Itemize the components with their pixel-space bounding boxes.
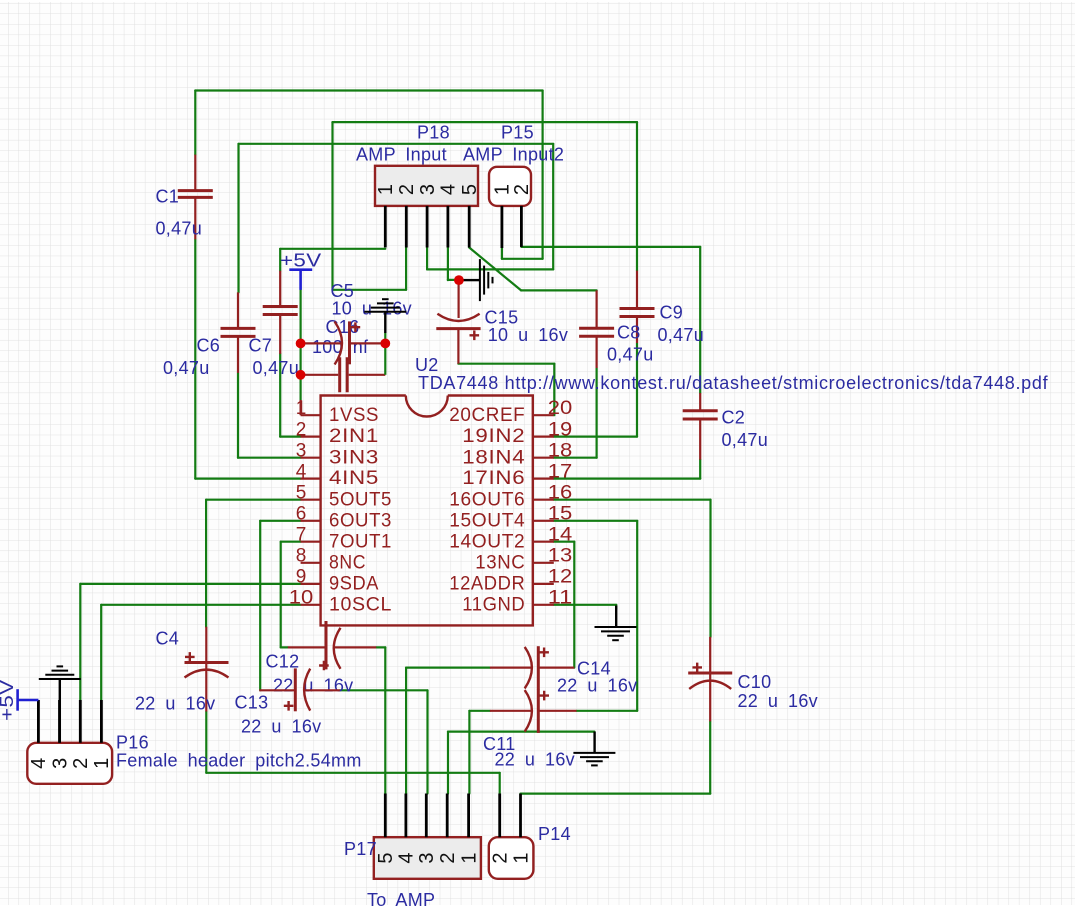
wire C7 top vertical green bbox=[279, 249, 281, 271]
wire C12 left lead green part bbox=[281, 646, 288, 648]
U2 pin names right bbox=[449, 405, 525, 616]
wire C14 left lead green part bbox=[406, 666, 490, 668]
svg-text:U2: U2 bbox=[415, 355, 439, 375]
wire pin3 row IN3 bbox=[238, 457, 301, 459]
wire net N$1 right vertical bbox=[541, 91, 543, 259]
svg-text:3: 3 bbox=[417, 184, 439, 195]
op-amp U2 TDA7448 IC body bbox=[321, 396, 533, 626]
svg-text:2: 2 bbox=[296, 419, 307, 440]
wire to junction dot C15 bbox=[448, 279, 455, 281]
wire vertical x553.2 bbox=[552, 144, 554, 270]
svg-text:15: 15 bbox=[548, 504, 573, 525]
svg-text:1VSS: 1VSS bbox=[329, 405, 379, 426]
wire vertical x332 bbox=[331, 122, 333, 290]
svg-text:1: 1 bbox=[375, 184, 397, 195]
wire stub below P15 pin1 bbox=[501, 248, 503, 259]
svg-text:0,47u: 0,47u bbox=[253, 358, 300, 378]
wire net P18.2 row y122 bbox=[333, 121, 638, 123]
svg-text:To AMP: To AMP bbox=[367, 890, 435, 910]
wire pin14 row OUT2 bbox=[554, 541, 575, 543]
wire C9 bottom vertical green bbox=[636, 343, 638, 437]
connector P16 pins bbox=[38, 700, 101, 743]
wire C10 bottom vertical green bbox=[709, 721, 711, 793]
wire C6 top vertical bbox=[237, 144, 239, 293]
capacitor C16 bbox=[301, 357, 386, 392]
svg-text:5: 5 bbox=[296, 483, 307, 504]
capacitor C6 bbox=[221, 292, 256, 373]
connector P14 pin digits bbox=[490, 852, 533, 863]
wire pin2 row IN1 bbox=[280, 436, 300, 438]
wire P14.1 row y793.6 bbox=[521, 792, 711, 794]
capacitor C10 bbox=[688, 637, 732, 722]
svg-text:Female header pitch2.54mm: Female header pitch2.54mm bbox=[116, 751, 362, 771]
svg-text:C7: C7 bbox=[249, 336, 273, 356]
svg-text:5: 5 bbox=[375, 852, 397, 863]
svg-text:22 u 16v: 22 u 16v bbox=[135, 694, 215, 714]
ground earth symbol pointing right near C15 bbox=[464, 259, 493, 301]
wire pin16 row OUT6 bbox=[554, 499, 711, 501]
svg-text:C13: C13 bbox=[235, 693, 269, 713]
wire dot3 to C16 right lead vertical bbox=[384, 343, 386, 374]
connector P14 pins bbox=[500, 794, 521, 838]
svg-text:22 u 16v: 22 u 16v bbox=[273, 676, 353, 696]
wire pin11 row GND bbox=[554, 604, 616, 606]
capacitor C9 bbox=[620, 271, 655, 343]
wire vertical C13 to P17.3 bbox=[426, 690, 428, 793]
wire pin15 row OUT4 bbox=[554, 520, 637, 522]
svg-text:C6: C6 bbox=[197, 336, 221, 356]
connector P15 body bbox=[489, 167, 531, 206]
capacitor C4 bbox=[185, 627, 229, 712]
svg-text:18: 18 bbox=[548, 441, 573, 462]
svg-text:4: 4 bbox=[296, 461, 307, 482]
svg-text:2: 2 bbox=[396, 184, 418, 195]
svg-text:5: 5 bbox=[459, 184, 481, 195]
connector P17 pin digits bbox=[375, 852, 480, 863]
svg-text:9SDA: 9SDA bbox=[329, 574, 379, 595]
wire horizontal y289.8 bbox=[333, 289, 407, 291]
svg-text:1: 1 bbox=[458, 852, 480, 863]
wire net N$1 C1 top vertical bbox=[194, 91, 196, 155]
svg-text:P17: P17 bbox=[344, 839, 377, 859]
junction dot node VSS rail lower bbox=[296, 370, 306, 380]
svg-text:C9: C9 bbox=[660, 303, 684, 323]
wire C2 bottom vertical green bbox=[699, 460, 701, 479]
wire vertical C11 to P17.1 bbox=[468, 711, 470, 794]
connector P17 body bbox=[374, 837, 481, 879]
wire C4 bottom vertical green bbox=[205, 712, 207, 773]
ground earth symbol pointing up near P16 bbox=[39, 666, 81, 742]
svg-text:C4: C4 bbox=[156, 629, 180, 649]
wire vertical pin15 to C11 bbox=[636, 521, 638, 711]
capacitor C13 bbox=[259, 668, 340, 711]
capacitor C5 bbox=[301, 321, 386, 364]
wire net C6 row y143.8 bbox=[239, 143, 554, 145]
capacitor C1 bbox=[178, 155, 213, 240]
capacitor C8 bbox=[579, 290, 614, 368]
svg-text:12ADDR: 12ADDR bbox=[449, 574, 525, 595]
wire vertical from P18.2 bbox=[405, 247, 407, 290]
svg-text:4: 4 bbox=[28, 758, 50, 769]
wire +5V into pin1 red part bbox=[300, 400, 302, 415]
capacitor C7 bbox=[263, 271, 298, 354]
wire C2 top vertical green bbox=[699, 247, 701, 393]
wire vertical C12 to P17.5 bbox=[384, 647, 386, 793]
capacitor C14 bbox=[490, 646, 574, 690]
svg-text:6OUT3: 6OUT3 bbox=[329, 510, 392, 531]
connector P14 body bbox=[489, 837, 534, 879]
svg-text:2: 2 bbox=[490, 852, 512, 863]
svg-text:0,47u: 0,47u bbox=[156, 219, 203, 239]
svg-text:+5V: +5V bbox=[280, 251, 322, 271]
svg-text:7: 7 bbox=[296, 525, 307, 546]
wire pin17 row IN6 bbox=[554, 478, 700, 480]
wire pin9 row SDA bbox=[80, 583, 300, 585]
wire C10 top vertical green bbox=[709, 500, 711, 637]
wire pin11 gnd vertical green bit bbox=[615, 605, 617, 609]
svg-text:17: 17 bbox=[548, 461, 573, 482]
junction dot node C15 top bbox=[454, 275, 464, 285]
svg-text:8NC: 8NC bbox=[329, 552, 366, 573]
svg-text:16OUT6: 16OUT6 bbox=[449, 489, 525, 510]
wire C15 bottom row y363.7 bbox=[458, 363, 554, 365]
svg-text:3IN3: 3IN3 bbox=[329, 447, 379, 468]
U2 pin numbers left bbox=[289, 398, 314, 609]
svg-text:P15: P15 bbox=[501, 123, 534, 143]
wire pin18 row IN4 bbox=[554, 457, 597, 459]
wire pin5 row OUT5 bbox=[206, 499, 301, 501]
svg-text:C1: C1 bbox=[156, 187, 180, 207]
wire pin10 row SCL bbox=[101, 604, 300, 606]
wire vertical pin14 to C14 bbox=[573, 542, 575, 668]
wire pin19 row IN2 bbox=[554, 436, 637, 438]
svg-text:19: 19 bbox=[548, 419, 573, 440]
svg-text:0,47u: 0,47u bbox=[163, 358, 210, 378]
svg-text:14: 14 bbox=[548, 525, 573, 546]
svg-text:7OUT1: 7OUT1 bbox=[329, 531, 392, 552]
svg-text:4: 4 bbox=[438, 184, 460, 195]
wire pin6 row OUT3 bbox=[260, 520, 300, 522]
wire C13 right lead green part bbox=[340, 689, 428, 691]
wire vertical to pin20 CREF bbox=[553, 364, 555, 416]
svg-text:20: 20 bbox=[548, 398, 573, 419]
U2 pin numbers right bbox=[548, 398, 573, 609]
svg-text:3: 3 bbox=[296, 441, 307, 462]
capacitor C11 bbox=[490, 689, 577, 733]
svg-text:1: 1 bbox=[510, 852, 532, 863]
svg-text:C2: C2 bbox=[722, 408, 746, 428]
svg-text:17IN6: 17IN6 bbox=[462, 468, 525, 489]
wire vertical SDA to P16.2 bbox=[79, 584, 81, 700]
wire vertical from P18.4 bbox=[447, 247, 449, 280]
wire pin7 row OUT1 bbox=[281, 541, 301, 543]
wire P18.1 row y248.8 bbox=[280, 248, 385, 250]
svg-text:15OUT4: 15OUT4 bbox=[449, 510, 525, 531]
svg-text:1: 1 bbox=[296, 398, 307, 419]
svg-text:P18: P18 bbox=[417, 123, 450, 143]
ground earth symbol below C11 bbox=[573, 732, 615, 766]
junction dot node VSS rail upper bbox=[296, 339, 306, 349]
svg-text:4: 4 bbox=[396, 852, 418, 863]
svg-text:2: 2 bbox=[437, 852, 459, 863]
svg-text:10 u 16v: 10 u 16v bbox=[488, 325, 568, 345]
U2 pin stubs right bbox=[533, 414, 554, 416]
wire bottom row y772.8 to P14.2 bbox=[206, 772, 499, 774]
svg-text:C8: C8 bbox=[617, 323, 641, 343]
svg-text:P16: P16 bbox=[116, 733, 149, 753]
svg-text:+5V: +5V bbox=[0, 680, 17, 722]
connector P16 body bbox=[27, 743, 112, 784]
capacitor C12 bbox=[288, 621, 376, 670]
svg-text:0,47u: 0,47u bbox=[658, 325, 705, 345]
connector P18 pins bbox=[385, 206, 469, 248]
connector P18 body bbox=[375, 166, 478, 206]
wire C12 right lead green part bbox=[376, 646, 385, 648]
connector P16 pin digits bbox=[28, 758, 113, 769]
svg-text:6: 6 bbox=[296, 504, 307, 525]
svg-text:3: 3 bbox=[416, 852, 438, 863]
ground earth symbol pointing up near C5 bbox=[364, 299, 406, 333]
svg-text:3: 3 bbox=[49, 758, 71, 769]
U2 pin stubs left bbox=[301, 400, 554, 605]
wire horizontal y269.4 from P18.3 bbox=[427, 268, 553, 270]
svg-text:22 u 16v: 22 u 16v bbox=[241, 717, 321, 737]
svg-text:10SCL: 10SCL bbox=[329, 594, 392, 615]
wire vertical from P18.3 bbox=[426, 247, 428, 269]
connector P15 pins bbox=[502, 206, 522, 248]
svg-text:11GND: 11GND bbox=[462, 594, 525, 615]
svg-text:20CREF: 20CREF bbox=[449, 405, 525, 426]
svg-text:22 u 16v: 22 u 16v bbox=[495, 750, 575, 770]
svg-text:19IN2: 19IN2 bbox=[462, 426, 525, 447]
wire horizontal y290.4 to C8 bbox=[521, 289, 597, 291]
wire vertical pin6 to C13 bbox=[259, 521, 261, 691]
ground earth symbol at pin11 GND bbox=[595, 606, 637, 641]
svg-text:22 u 16v: 22 u 16v bbox=[738, 691, 818, 711]
svg-text:18IN4: 18IN4 bbox=[462, 447, 525, 468]
svg-text:C10: C10 bbox=[738, 672, 772, 692]
svg-text:P14: P14 bbox=[538, 824, 571, 844]
svg-text:11: 11 bbox=[548, 588, 573, 609]
svg-text:5OUT5: 5OUT5 bbox=[329, 489, 392, 510]
svg-text:2IN1: 2IN1 bbox=[329, 426, 379, 447]
wire vertical SCL to P16.1 bbox=[100, 605, 102, 700]
wire net P15.2 row y246.9 bbox=[521, 246, 700, 248]
supply +5V symbol top bbox=[289, 270, 312, 290]
svg-text:13NC: 13NC bbox=[475, 552, 525, 573]
svg-text:1: 1 bbox=[91, 758, 113, 769]
svg-text:2: 2 bbox=[511, 184, 533, 195]
wire gnd row y731.6 bbox=[448, 730, 594, 732]
wire C9 top vertical green part bbox=[636, 122, 638, 271]
wire pin4 row IN5 bbox=[195, 478, 300, 480]
svg-text:13: 13 bbox=[548, 546, 573, 567]
wire C6 bottom vertical green bbox=[237, 373, 239, 458]
wire GND symbol C5 area green bit bbox=[384, 333, 386, 339]
wire vertical into P14.2 bbox=[499, 773, 501, 794]
junction dot node GND near C16 bbox=[380, 339, 390, 349]
svg-text:14OUT2: 14OUT2 bbox=[449, 531, 525, 552]
wire vertical pin7 to C12 bbox=[280, 542, 282, 648]
wire C11 right lead green part bbox=[577, 710, 638, 712]
wire net N$1 horizontal into P15 pin1 bbox=[502, 258, 543, 260]
wire vertical C14 to P17.4 bbox=[405, 668, 407, 794]
svg-text:22 u 16v: 22 u 16v bbox=[557, 676, 637, 696]
supply +5V symbol left of P16 bbox=[18, 689, 39, 711]
wire C15 dot stub left bbox=[447, 279, 449, 281]
wire C8 bottom vertical green bbox=[595, 368, 597, 458]
svg-text:0,47u: 0,47u bbox=[607, 345, 654, 365]
svg-text:AMP Input2: AMP Input2 bbox=[463, 145, 564, 165]
svg-text:9: 9 bbox=[296, 567, 307, 588]
wire C4 top vertical green bbox=[205, 500, 207, 627]
svg-text:4IN5: 4IN5 bbox=[329, 468, 379, 489]
wire vertical to P17.2 bbox=[447, 732, 449, 794]
svg-text:16: 16 bbox=[548, 483, 573, 504]
capacitor C2 bbox=[683, 393, 718, 460]
connector P17 pins bbox=[385, 794, 468, 838]
wire C1 bottom vertical green bbox=[194, 239, 196, 478]
svg-text:10: 10 bbox=[289, 588, 314, 609]
svg-text:TDA7448 http://www.kontest.ru/: TDA7448 http://www.kontest.ru/datasheet/… bbox=[418, 373, 1049, 393]
wire diagonal from P18.5 bbox=[469, 248, 521, 291]
svg-text:8: 8 bbox=[296, 546, 307, 567]
wire C7 bottom vertical green bbox=[279, 354, 281, 437]
connector P18 pin digits bbox=[375, 184, 481, 195]
svg-text:12: 12 bbox=[548, 567, 573, 588]
U2 pin names left bbox=[329, 405, 392, 616]
wire net N$1 top horizontal to P15.1 bbox=[195, 89, 542, 91]
svg-text:2: 2 bbox=[70, 758, 92, 769]
wire plus5V rail vertical bbox=[300, 290, 302, 400]
svg-text:0,47u: 0,47u bbox=[722, 430, 769, 450]
connector P15 pin digits bbox=[492, 184, 534, 195]
wire C11 left lead green part bbox=[469, 710, 490, 712]
capacitor C15 bbox=[436, 284, 480, 364]
svg-text:AMP Input: AMP Input bbox=[356, 145, 447, 165]
